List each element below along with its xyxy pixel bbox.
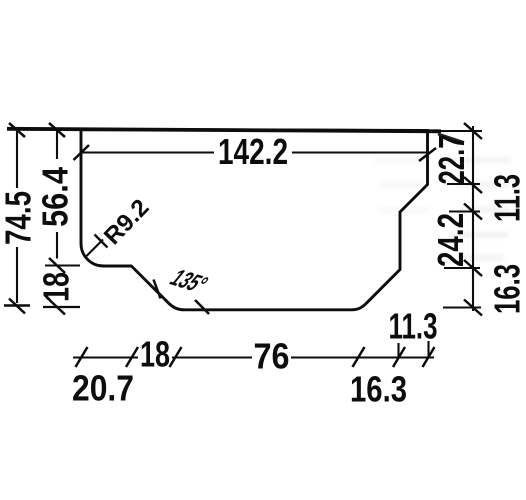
top edge thin right extension [428,130,482,132]
svg-text:16.3: 16.3 [487,264,526,314]
tick 142.2 left [74,145,90,160]
bottom chain stub 16.3/11.3 [397,343,399,358]
svg-text:56.4: 56.4 [35,167,76,227]
svg-text:16.3: 16.3 [350,369,407,410]
dim line 56.4 [56,131,58,259]
right chain ext bottom [443,306,481,308]
svg-text:22.7: 22.7 [431,135,472,185]
tick 135 on flat [195,300,209,314]
tick 74.5 top [9,123,25,137]
svg-text:74.5: 74.5 [0,191,39,245]
top edge thick line [7,129,441,132]
bottom chain ticks [76,347,435,367]
svg-text:11.3: 11.3 [487,174,526,222]
tick 18 left bottom [49,300,65,315]
tick 142.2 right [419,148,436,161]
svg-text:11.3: 11.3 [389,306,438,347]
dim 18 left: ext line bottom [43,306,80,308]
ext line 56.4 bottom [45,264,80,266]
tick 74.5 bottom [9,299,25,314]
part outline [81,130,428,310]
bottom chain stub right end [427,341,429,358]
svg-text:142.2: 142.2 [218,131,288,172]
right chain ext 24.2/16.3 [444,267,480,269]
tick 56.4 top [49,123,65,137]
dim line 74.5 [16,131,18,303]
leader R9.2 [87,240,104,257]
right chain ext 22.7/11.3 [447,183,480,185]
svg-text:24.2: 24.2 [430,213,471,267]
right chain ticks [464,123,482,316]
svg-text:76: 76 [254,336,290,377]
svg-text:18: 18 [140,334,170,375]
scan noise patch right [450,160,510,258]
tick 135 on diagonal [154,280,161,299]
ext line bottom left 74.5 [4,304,30,306]
dim line 142.2 [81,151,427,153]
scan noise patch middle [375,160,428,210]
right dim chain line [472,126,474,311]
tick 56.4 bottom [49,258,65,273]
right chain ext 11.3/24.2 [449,210,480,212]
bottom dim chain line [73,356,434,358]
svg-text:20.7: 20.7 [72,368,134,409]
svg-text:18: 18 [36,272,77,302]
scan smudge stroke [438,134,464,143]
tick R9.2 [95,235,108,248]
